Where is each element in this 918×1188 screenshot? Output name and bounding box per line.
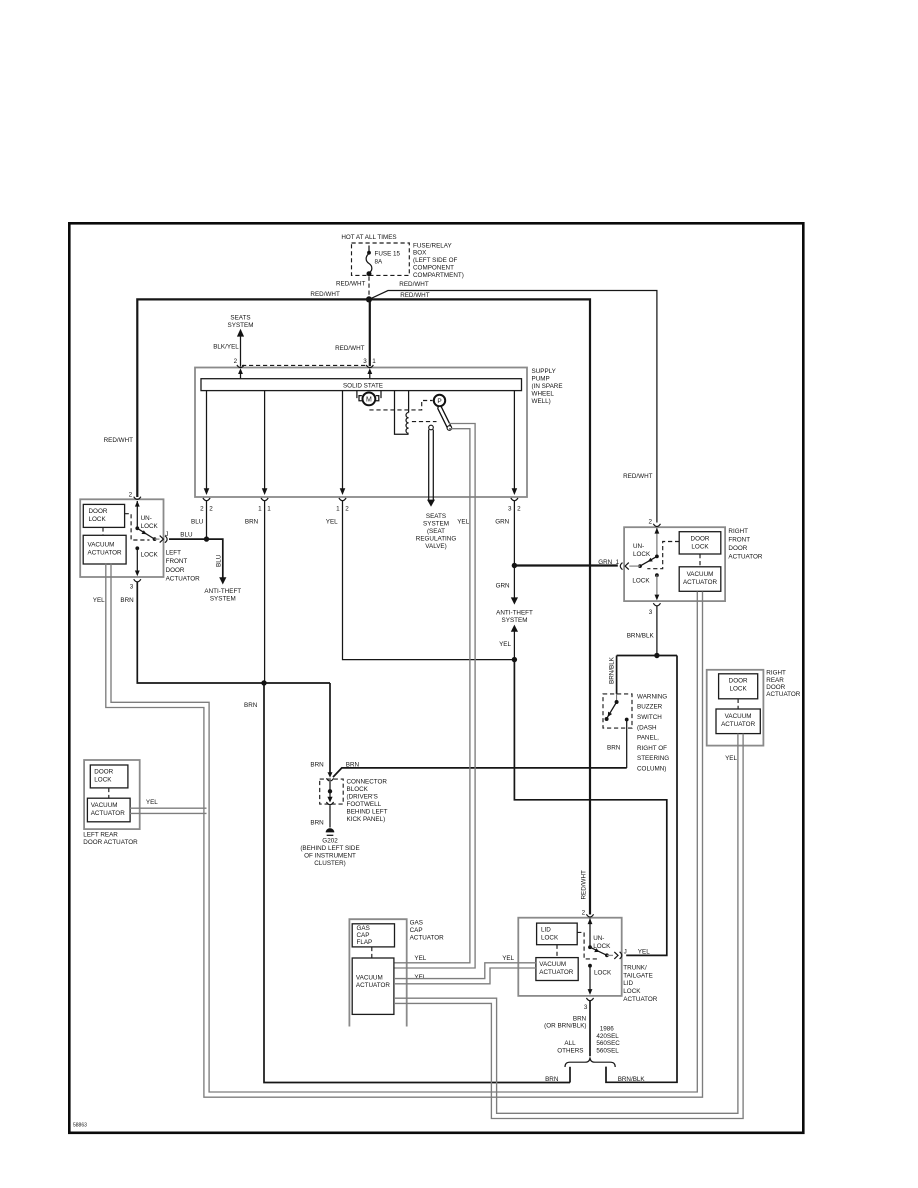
svg-text:LEFT REAR: LEFT REAR [83,832,118,839]
svg-text:420SEL: 420SEL [596,1033,619,1040]
svg-text:DOOR: DOOR [691,535,710,542]
LF pin J arc [165,536,167,543]
wire BRN from pump pin 1-1 [264,501,266,684]
vacuum tube: gas cap to trunk actuator [394,963,537,979]
dashed link door lock to switch (LF) [125,514,150,540]
svg-text:J: J [624,949,627,956]
trunk switch contact stub [607,954,613,956]
vacuum actuator box (RR) [716,709,760,734]
trunk lock contact [588,964,592,968]
svg-text:LOCK: LOCK [89,516,107,523]
pump pin 3/1 arc (top) [366,365,373,368]
svg-text:VACUUM: VACUUM [356,975,383,982]
LF pin 3 arc [134,579,141,582]
wire BRN/BLK down to warning buzzer [616,656,618,694]
svg-text:REAR: REAR [766,677,784,684]
vacuum actuator box (RF) [679,567,721,592]
seats system feed arrow (top) [213,315,253,367]
trunk pin 3 arc [586,998,593,1001]
svg-text:LOCK: LOCK [633,551,651,558]
svg-text:8A: 8A [375,259,384,266]
connector block (dashed) [320,779,344,804]
svg-text:ANTI-THEFT: ANTI-THEFT [204,588,241,595]
LF switch contact stub [155,538,160,540]
LF pin 2 arc [134,497,141,500]
buzzer switch pivot and arm [616,694,618,702]
wire GRN to anti-theft (arrow down) [513,566,515,599]
svg-text:58863: 58863 [73,1123,87,1129]
pump internal wire to pin 1-1 with arrow [264,391,266,489]
svg-text:SEATS: SEATS [426,513,446,520]
vacuum tube: pump to gas cap actuator [395,424,476,969]
svg-text:SYSTEM: SYSTEM [423,521,449,528]
right front door actuator label [728,528,763,561]
svg-text:DOOR: DOOR [766,684,785,691]
svg-text:1: 1 [336,506,340,513]
trunk switch arm (un-lock) [590,947,607,955]
solid state bar [201,379,522,391]
svg-text:(IN SPARE: (IN SPARE [532,383,563,390]
svg-text:BLU: BLU [191,519,204,526]
svg-text:VACUUM: VACUUM [687,571,714,578]
svg-text:BRN: BRN [310,761,324,768]
svg-text:1: 1 [372,358,376,365]
svg-text:GAS: GAS [357,925,370,932]
svg-text:LEFT: LEFT [166,550,182,557]
connector block label [347,779,388,824]
svg-text:BLU: BLU [216,554,223,567]
gas cap actuator box (open bottom) [349,919,406,1026]
svg-text:HOT AT ALL TIMES: HOT AT ALL TIMES [341,234,396,241]
svg-text:DOOR: DOOR [729,678,748,685]
fuse/relay box location label [413,242,464,279]
connector top pin arc [326,778,333,781]
svg-text:COLUMN): COLUMN) [637,766,666,773]
svg-text:J: J [165,531,168,538]
dashed link lid lock to vacuum actuator [556,945,558,958]
svg-text:LOCK: LOCK [141,551,159,558]
dashed link door lock to vacuum actuator (RF) [699,554,701,567]
svg-text:RIGHT: RIGHT [728,528,748,535]
svg-text:ACTUATOR: ACTUATOR [166,575,201,582]
svg-text:YEL: YEL [725,755,737,762]
svg-text:FRONT: FRONT [728,536,750,543]
svg-text:BRN/BLK: BRN/BLK [608,656,615,684]
svg-text:BEHIND LEFT: BEHIND LEFT [347,809,388,816]
svg-text:BRN: BRN [244,702,258,709]
svg-text:UN-: UN- [593,935,604,942]
svg-text:VACUUM: VACUUM [88,541,115,548]
svg-text:WHEEL: WHEEL [532,390,555,397]
connector bottom pin arc [326,802,333,805]
svg-text:BRN: BRN [607,745,621,752]
svg-text:PUMP: PUMP [532,376,550,383]
LF switch pivot [135,526,139,530]
svg-text:GRN: GRN [496,583,510,590]
svg-text:LOCK: LOCK [94,777,112,784]
svg-text:CAP: CAP [410,927,423,934]
svg-text:ANTI-THEFT: ANTI-THEFT [496,610,533,617]
svg-text:3: 3 [363,358,367,365]
svg-text:3: 3 [584,1004,588,1011]
svg-text:ACTUATOR: ACTUATOR [91,810,126,817]
svg-text:DOOR ACTUATOR: DOOR ACTUATOR [83,839,138,846]
svg-text:ACTUATOR: ACTUATOR [88,549,123,556]
left front door actuator box [80,499,163,577]
wire BRN from LF pin 3 down and right [137,582,330,684]
buzzer switch fixed contact [625,718,629,722]
svg-text:SOLID STATE: SOLID STATE [343,382,383,389]
svg-text:BRN: BRN [245,519,259,526]
RF pin 3 arc [653,603,660,606]
svg-text:DOOR: DOOR [166,567,185,574]
svg-text:YEL: YEL [638,949,650,956]
wire BRN/BLK junction bar [617,655,677,657]
svg-text:(SEAT: (SEAT [427,528,445,535]
wire BLU from pump pin 2-2 [206,501,208,540]
pump internal wire to pin 2-2 with arrow [206,391,208,489]
brace [565,1057,615,1067]
svg-text:GRN: GRN [495,519,509,526]
svg-text:LOCK: LOCK [730,686,748,693]
wire BLU from left front pin J to anti-theft [169,539,223,578]
svg-text:2: 2 [200,506,204,513]
svg-text:ACTUATOR: ACTUATOR [539,969,574,976]
RF switch chevron to pin 1 [625,563,629,570]
svg-text:FUSE/RELAY: FUSE/RELAY [413,242,453,249]
svg-text:VACUUM: VACUUM [725,713,752,720]
svg-text:BRN: BRN [120,597,134,604]
wire BRN down to connector block [329,683,331,774]
vacuum actuator box (LF) [83,535,126,564]
wire BRN main run down to bottom [264,683,570,1083]
svg-text:PANEL,: PANEL, [637,735,659,742]
connector dashes between pump pins [242,364,367,366]
svg-text:BUZZER: BUZZER [637,704,663,711]
dashed link door lock to vacuum actuator (LF) [102,527,104,535]
svg-text:3: 3 [508,506,512,513]
RF pin 2 arc [653,524,660,527]
svg-text:COMPARTMENT): COMPARTMENT) [413,272,464,279]
pressure switch P [434,395,445,406]
right front door actuator box [624,527,725,601]
lid lock box [537,923,578,945]
dashed link door lock to vacuum actuator (LR) [108,788,110,798]
svg-text:LOCK: LOCK [141,523,159,530]
trunk pin 2 arc [586,914,593,917]
svg-text:ACTUATOR: ACTUATOR [410,934,445,941]
door lock box (RF) [679,532,721,554]
svg-text:GAS: GAS [410,920,423,927]
svg-text:SYSTEM: SYSTEM [502,617,528,624]
svg-text:2: 2 [582,909,586,916]
supply pump box [195,368,527,498]
seats system (seat regulating valve) label [416,513,457,550]
svg-text:BRN/BLK: BRN/BLK [627,633,655,640]
svg-text:UN-: UN- [141,515,152,522]
svg-text:YEL: YEL [499,641,511,648]
motor M [363,393,376,406]
dashed link flap to vacuum actuator [371,947,373,958]
svg-text:LOCK: LOCK [691,543,709,550]
wire BRN/BLK from RF pin 3 [656,606,658,656]
svg-text:GRN: GRN [598,559,612,566]
svg-text:WARNING: WARNING [637,693,667,700]
door lock box (RR) [719,674,758,699]
dashed link lid lock to switch (trunk) [577,932,599,959]
svg-text:560SEC: 560SEC [596,1040,620,1047]
trunk actuator label [623,965,658,1003]
wire GRN to right front door pin 1 [514,564,617,566]
svg-text:YEL: YEL [502,955,514,962]
svg-text:TRUNK/: TRUNK/ [623,965,647,972]
svg-text:LID: LID [541,927,551,934]
svg-text:(LEFT SIDE OF: (LEFT SIDE OF [413,257,457,264]
svg-text:BLK/YEL: BLK/YEL [213,343,239,350]
trunk pin J arc [620,952,622,959]
svg-text:2: 2 [517,506,521,513]
svg-text:LOCK: LOCK [541,935,559,942]
fuse F15 8A [366,246,372,277]
svg-text:BOX: BOX [413,250,427,257]
warning buzzer switch label [637,693,669,772]
RF switch common wire with up arrow [656,528,658,556]
svg-text:(BEHIND LEFT SIDE: (BEHIND LEFT SIDE [300,845,359,852]
gas cap flap box [352,924,394,947]
connector internal wire and junction [329,782,331,799]
fuse/relay box (dashed) [352,243,410,275]
svg-text:CLUSTER): CLUSTER) [314,860,346,867]
wire YEL down to trunk pin J [514,660,666,956]
svg-text:LOCK: LOCK [623,988,641,995]
svg-text:RIGHT OF: RIGHT OF [637,745,667,752]
svg-text:VACUUM: VACUUM [539,961,566,968]
svg-text:COMPONENT: COMPONENT [413,265,454,272]
LF switch arm (un-lock) [137,528,154,539]
svg-text:TAILGATE: TAILGATE [623,972,653,979]
wire GRN from pump pin 3-2 [513,501,515,566]
wire BRN from buzzer contact down [626,720,628,768]
svg-text:ACTUATOR: ACTUATOR [683,579,718,586]
svg-text:2: 2 [209,506,213,513]
svg-text:SYSTEM: SYSTEM [210,596,236,603]
wire BRN to ground [329,805,331,827]
pump pin 2 arc (top) [237,365,244,368]
svg-text:FOOTWELL: FOOTWELL [347,801,382,808]
vacuum tube: left front to right front actuator [111,563,697,1092]
right rear door actuator label [766,670,801,699]
left front door actuator label [166,550,201,583]
vacuum actuator box (trunk) [536,958,578,981]
svg-text:ALL: ALL [564,1040,576,1047]
svg-text:RED/WHT: RED/WHT [581,870,588,900]
svg-text:YEL: YEL [457,519,469,526]
svg-text:LOCK: LOCK [593,943,611,950]
RF pin 1 arc [620,563,622,570]
svg-text:VALVE): VALVE) [425,543,446,550]
svg-text:ACTUATOR: ACTUATOR [721,721,756,728]
wire RED/WHT junction to supply pump pin 1 [369,299,371,366]
svg-text:(OR BRN/BLK): (OR BRN/BLK) [544,1022,586,1029]
RF switch arm (un-lock) [640,556,657,566]
vacuum actuator box (gas cap) [352,958,394,1014]
dashed link door lock to switch (RF) [647,542,679,569]
ground G202 [326,828,335,832]
pump internal entry arrow (pin 2) [240,371,242,379]
svg-text:3: 3 [649,609,653,616]
mechanical link dashes motor to P switch [369,401,432,410]
svg-text:M: M [366,397,372,404]
svg-text:BRN: BRN [573,1015,587,1022]
svg-text:BRN: BRN [310,820,324,827]
svg-text:(DASH: (DASH [637,724,657,731]
svg-text:DOOR: DOOR [728,545,747,552]
svg-text:YEL: YEL [414,955,426,962]
svg-text:RED/WHT: RED/WHT [400,292,430,299]
svg-text:CAP: CAP [357,932,370,939]
wire BRN from trunk pin 3 to brace [589,1000,591,1056]
svg-text:FUSE 15: FUSE 15 [375,251,401,258]
trunk/tailgate lid lock actuator box [518,918,621,996]
svg-text:REGULATING: REGULATING [416,536,457,543]
vacuum actuator box (LR) [87,798,130,822]
svg-text:KICK PANEL): KICK PANEL) [347,816,386,823]
LF switch chevron to pin J [160,536,164,543]
svg-text:ACTUATOR: ACTUATOR [766,691,801,698]
svg-text:ACTUATOR: ACTUATOR [623,996,658,1003]
svg-text:LOCK: LOCK [632,577,650,584]
svg-text:2: 2 [648,518,652,525]
svg-text:BLOCK: BLOCK [347,786,369,793]
seat regulating valve port [429,425,434,430]
svg-text:LID: LID [623,980,633,987]
svg-text:P: P [437,398,441,405]
svg-text:STEERING: STEERING [637,755,669,762]
LF lock contact [135,546,139,550]
wire RED/WHT thick right run to trunk actuator [369,299,590,914]
svg-text:VACUUM: VACUUM [91,802,118,809]
svg-text:LOCK: LOCK [594,970,612,977]
motor M feed wires [357,391,381,399]
svg-text:(DRIVER'S: (DRIVER'S [347,794,378,801]
svg-text:560SEL: 560SEL [596,1048,619,1055]
svg-text:RED/WHT: RED/WHT [336,280,366,287]
dashed link door lock to vacuum actuator (RR) [737,699,739,709]
svg-text:BRN: BRN [545,1076,559,1083]
RF switch contact stub [629,565,640,567]
LF switch common wire with up arrow [136,501,138,528]
supply pump location label [532,368,563,405]
svg-text:YEL: YEL [326,519,338,526]
svg-text:G202: G202 [322,837,338,844]
vacuum tube: left rear actuator branch [130,808,207,813]
svg-text:2: 2 [129,492,133,499]
svg-text:YEL: YEL [414,974,426,981]
svg-text:OF INSTRUMENT: OF INSTRUMENT [304,852,356,859]
svg-text:SUPPLY: SUPPLY [532,368,557,375]
node A: main RED/WHT junction [366,296,372,302]
svg-text:FLAP: FLAP [357,939,373,946]
wire BRN from warning buzzer into connector [333,768,627,777]
svg-text:1: 1 [616,559,620,566]
svg-text:RED/WHT: RED/WHT [399,281,429,288]
svg-text:ACTUATOR: ACTUATOR [728,553,763,560]
svg-text:1: 1 [258,506,262,513]
warning buzzer switch (dashed box) [603,694,632,728]
svg-text:SYSTEM: SYSTEM [228,322,254,329]
svg-text:FRONT: FRONT [166,558,188,565]
gas cap actuator label [410,920,445,942]
svg-text:RED/WHT: RED/WHT [310,291,340,298]
node: BRN/BLK junction [654,653,659,658]
svg-text:DOOR: DOOR [94,769,113,776]
svg-text:1: 1 [267,506,271,513]
node: GRN junction [512,563,517,568]
svg-text:SWITCH: SWITCH [637,714,662,721]
node: YEL junction [512,657,517,662]
trunk switch chevron to pin J [614,952,618,959]
wire RED/WHT thin branch to right front door [369,291,657,523]
svg-text:YEL: YEL [146,799,158,806]
door lock box (LR) [90,765,128,788]
right rear door actuator box [707,670,764,746]
seat regulating valve tube [429,430,434,501]
svg-text:YEL: YEL [93,597,105,604]
svg-text:RIGHT: RIGHT [766,670,786,677]
svg-text:UN-: UN- [633,543,644,550]
svg-text:1986: 1986 [600,1026,615,1033]
wire BRN/BLK right run to bottom brace [606,656,677,1083]
border frame [69,223,803,1133]
svg-text:RED/WHT: RED/WHT [104,437,134,444]
RF switch pivot [655,555,659,559]
svg-text:BLU: BLU [180,532,193,539]
svg-text:BRN/BLK: BRN/BLK [618,1076,646,1083]
svg-text:SEATS: SEATS [230,315,250,322]
node: BLU junction [204,536,209,541]
mechanical link dashes coil to valve lever [412,421,437,423]
svg-text:CONNECTOR: CONNECTOR [347,779,388,786]
node: BRN junction [261,680,266,685]
svg-text:ACTUATOR: ACTUATOR [356,982,391,989]
wire YEL to anti-theft (arrow up) [511,625,518,632]
svg-text:WELL): WELL) [532,398,551,405]
svg-text:2: 2 [234,358,238,365]
svg-text:DOOR: DOOR [89,508,108,515]
trunk switch pivot [588,945,592,949]
pump internal wire to pin 1-2 with arrow [342,391,344,489]
pump bottom pin arcs [203,498,210,501]
trunk switch common wire with up arrow [589,919,591,948]
wire RED/WHT left run to left front door [137,299,369,497]
relay coil branch [395,391,409,435]
valve lever [440,408,449,427]
wire YEL from pump pin 1-2 [343,501,515,660]
left rear door actuator box [84,760,140,829]
RF lock contact [655,573,659,577]
pump internal wire to pin 3-2 with arrow [513,391,515,489]
wire RED/WHT dashed from fuse to junction [368,277,370,298]
vacuum tube: gas cap to right rear actuator [394,734,738,1114]
door lock box (LF) [83,504,124,527]
wire BRN left brace leg [569,1067,571,1083]
svg-text:RED/WHT: RED/WHT [335,345,365,352]
svg-text:3: 3 [130,584,134,591]
motor M terminals [359,396,379,401]
svg-text:OTHERS: OTHERS [557,1048,583,1055]
svg-text:BRN: BRN [346,761,360,768]
svg-text:2: 2 [345,506,349,513]
